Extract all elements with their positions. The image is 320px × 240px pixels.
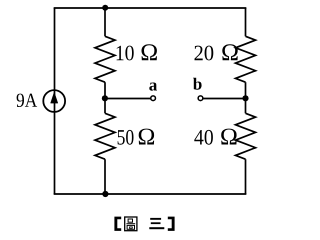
wire left rail bbox=[54, 8, 56, 194]
caption bracket left bbox=[114, 217, 121, 231]
wire node a stub bbox=[105, 98, 151, 100]
current source I1 9A bbox=[43, 90, 65, 112]
label 50 ohm bbox=[118, 129, 155, 145]
junction top bbox=[102, 5, 108, 11]
wire left branch middle bbox=[104, 82, 106, 113]
label 20 ohm bbox=[195, 44, 238, 60]
wire top bbox=[54, 7, 247, 9]
wire right branch middle bbox=[245, 82, 247, 113]
caption glyph san (three) bbox=[149, 218, 164, 229]
wire left branch lower bbox=[104, 159, 106, 194]
wire right branch upper bbox=[245, 8, 247, 36]
terminal b open circle bbox=[198, 96, 203, 101]
caption bracket right bbox=[168, 217, 175, 231]
junction node b right bbox=[242, 95, 248, 101]
junction bottom bbox=[102, 191, 108, 197]
resistor R4 40 ohm bbox=[236, 113, 256, 159]
label 40 ohm bbox=[194, 129, 236, 145]
label b bbox=[193, 78, 202, 90]
resistor R3 50 ohm bbox=[95, 113, 115, 159]
label a bbox=[149, 83, 157, 91]
resistor R1 10 ohm bbox=[95, 36, 115, 82]
wire left branch upper bbox=[104, 8, 106, 36]
resistor R2 20 ohm bbox=[236, 36, 256, 82]
junction node a bbox=[102, 95, 108, 101]
wire node b stub bbox=[203, 98, 245, 100]
label 10 ohm bbox=[117, 44, 157, 60]
wire right branch lower bbox=[245, 159, 247, 194]
terminal a open circle bbox=[151, 96, 156, 101]
caption glyph tu (figure) bbox=[125, 217, 137, 231]
label 9A bbox=[17, 94, 37, 107]
wire bottom bbox=[54, 193, 247, 195]
